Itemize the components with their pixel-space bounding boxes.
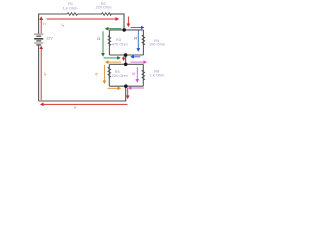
svg-text:I3: I3 (97, 37, 100, 41)
current arrow IT down (beside top-right descent) (127, 17, 129, 27)
current arrow I6 left (rail 4 toward node D) (129, 87, 144, 89)
current arrow IT down (below node D) (127, 88, 129, 98)
wire: top-right descent to node A (123, 14, 125, 30)
current arrow I3 left (rail 1 toward R3) (106, 28, 122, 30)
wire: top horizontal (segment left of R1) (38, 13, 67, 15)
svg-text:I5: I5 (95, 73, 98, 77)
wire: R6 branch vertical (142, 64, 144, 86)
wire: left vertical (battery top to top wire) (38, 14, 40, 34)
current arrow IT up (left wire, above battery) (40, 17, 42, 33)
wire: rail 2 (bottom of R3/R4 pair) (109, 54, 143, 56)
resistor R6 (1 k Ohm, right branch of second pair, vertical zigzag) (142, 70, 145, 80)
wire: R3 branch vertical (108, 30, 110, 55)
current arrow I6 down (beside R6) (136, 67, 138, 82)
resistor R3 (470 Ohm, left branch of first pair, vertical zigzag) (108, 36, 111, 46)
wire: left vertical (battery bottom to bottom wire) (38, 45, 40, 101)
node A junction dot (122, 28, 126, 32)
wire: rail 3 (top of R5/R6 pair) (109, 63, 143, 65)
svg-text:12V: 12V (46, 37, 53, 41)
wire: rail 4 (bottom of R5/R6 pair) (109, 85, 143, 87)
wire: rail 1 (top of R3/R4 pair) (109, 29, 143, 31)
resistor R4 (100 Ohm, right branch of first pair, vertical zigzag) (142, 35, 145, 45)
wire: bottom-right descent from node D (125, 86, 127, 101)
current arrow IT up (left wire, below battery) (40, 46, 42, 100)
node B junction dot (124, 53, 128, 57)
wire: bottom horizontal return (39, 100, 127, 102)
current arrow I5 left (rail 3 toward R5) (106, 61, 121, 63)
resistor R2 (220 Ohm, top, horizontal zigzag) (102, 13, 112, 16)
current arrow I4 right (rail 1 toward R4) (131, 27, 144, 29)
svg-text:1 k Ohm: 1 k Ohm (150, 73, 165, 78)
wire: top horizontal (segment between R1 and R2) (77, 13, 101, 15)
svg-text:1 k Ohm: 1 k Ohm (63, 6, 78, 11)
node D junction dot (124, 84, 128, 88)
current arrow I6 right (rail 3 toward R6) (131, 61, 147, 63)
current arrow I4 down (beside R4) (137, 31, 139, 51)
current arrow I4 left (rail 2 toward node B) (131, 56, 140, 58)
wire: R5 branch vertical (108, 64, 110, 86)
current arrow IT left (below bottom wire) (41, 103, 128, 105)
current arrow IT down (node B to node C connector) (123, 56, 125, 60)
wire: connector node B to node C (125, 55, 127, 64)
current arrow IT right (below top wire) (47, 18, 119, 20)
resistor R5 (220 Ohm, left branch of second pair, vertical zigzag) (108, 67, 111, 78)
battery V1 12V (34, 34, 43, 45)
svg-text:I6: I6 (132, 72, 135, 76)
wire: R4 branch vertical (142, 30, 144, 55)
node C junction dot (124, 63, 128, 67)
svg-text:I4: I4 (134, 36, 137, 40)
svg-text:470 Ohm: 470 Ohm (112, 41, 128, 46)
current arrow I5 down (beside R5) (103, 65, 105, 83)
svg-text:220 Ohm: 220 Ohm (95, 5, 111, 10)
resistor R1 (1 k Ohm, top left, horizontal zigzag) (67, 13, 77, 16)
svg-text:100 Ohm: 100 Ohm (149, 41, 165, 46)
svg-text:220 Ohm: 220 Ohm (112, 73, 128, 78)
current arrow I5 right (rail 4 toward node D) (108, 87, 121, 89)
wire: top horizontal (segment right of R2) (111, 13, 125, 15)
current arrow I3 right (rail 2 toward node B) (104, 57, 121, 59)
current arrow I3 down (beside R3) (102, 31, 104, 56)
